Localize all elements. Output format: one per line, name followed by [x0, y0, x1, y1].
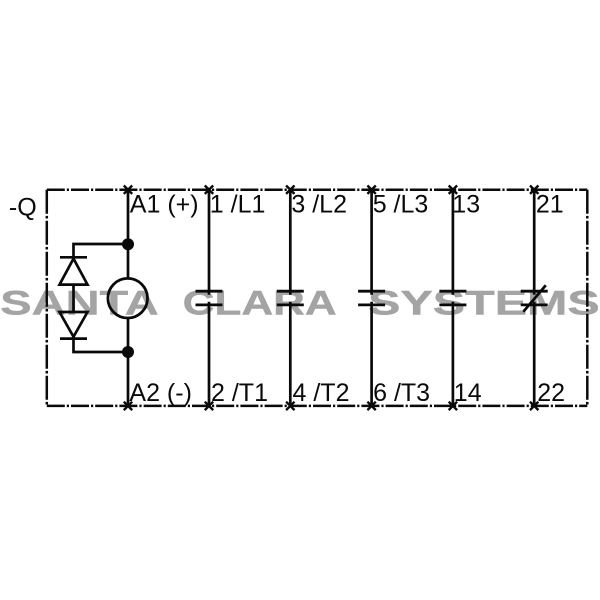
svg-text:SYSTEMS: SYSTEMS: [368, 285, 600, 323]
terminal cross 13: [449, 186, 457, 194]
auxiliary NO contact 13-14: [439, 190, 466, 406]
terminal cross 3/L2: [286, 186, 294, 194]
svg-text:21: 21: [536, 191, 564, 219]
terminal cross 22: [530, 402, 538, 410]
svg-text:4 /T2: 4 /T2: [293, 379, 350, 407]
svg-text:1 /L1: 1 /L1: [210, 191, 266, 219]
terminal cross A2: [124, 402, 132, 410]
terminal cross 4/T2: [286, 402, 294, 410]
svg-text:A1 (+): A1 (+): [130, 191, 199, 219]
auxiliary NC contact 21-22: [521, 190, 548, 406]
coil of contactor -Q (operating coil): [108, 278, 148, 318]
svg-text:22: 22: [537, 379, 565, 407]
diode V1 (surge suppressor, cathode up): [60, 257, 88, 284]
main contact pole 3/L2-4/T2: [277, 190, 304, 406]
svg-text:5 /L3: 5 /L3: [373, 191, 429, 219]
terminal cross 1/L1: [205, 186, 213, 194]
svg-text:6 /T3: 6 /T3: [373, 379, 430, 407]
wire between diodes: [72, 285, 75, 312]
terminal cross 21: [530, 186, 538, 194]
terminal cross 14: [449, 402, 457, 410]
diode V2 (surge suppressor, cathode down): [60, 312, 88, 339]
terminal cross 5/L3: [367, 186, 375, 194]
svg-text:14: 14: [454, 379, 482, 407]
wire suppressor branch bottom horizontal: [74, 337, 129, 352]
main contact pole 1/L1-2/T1: [196, 190, 223, 406]
wire suppressor branch top horizontal: [74, 244, 129, 257]
svg-text:2 /T1: 2 /T1: [211, 379, 268, 407]
wire coil column upper segment: [127, 190, 130, 279]
svg-text:13: 13: [452, 191, 480, 219]
svg-text:3 /L2: 3 /L2: [291, 191, 347, 219]
terminal cross 6/T3: [367, 402, 375, 410]
terminal cross 2/T1: [205, 402, 213, 410]
wire coil column lower segment: [127, 318, 130, 406]
junction dot bottom (coil / suppressor): [122, 346, 134, 358]
contactor -Q enclosure (dash-dot outline): [47, 190, 588, 406]
svg-text:A2 (-): A2 (-): [129, 379, 192, 407]
terminal cross A1: [124, 186, 132, 194]
main contact pole 5/L3-6/T3: [358, 190, 385, 406]
junction dot top (coil / suppressor): [122, 238, 134, 250]
svg-text:-Q: -Q: [9, 194, 37, 222]
